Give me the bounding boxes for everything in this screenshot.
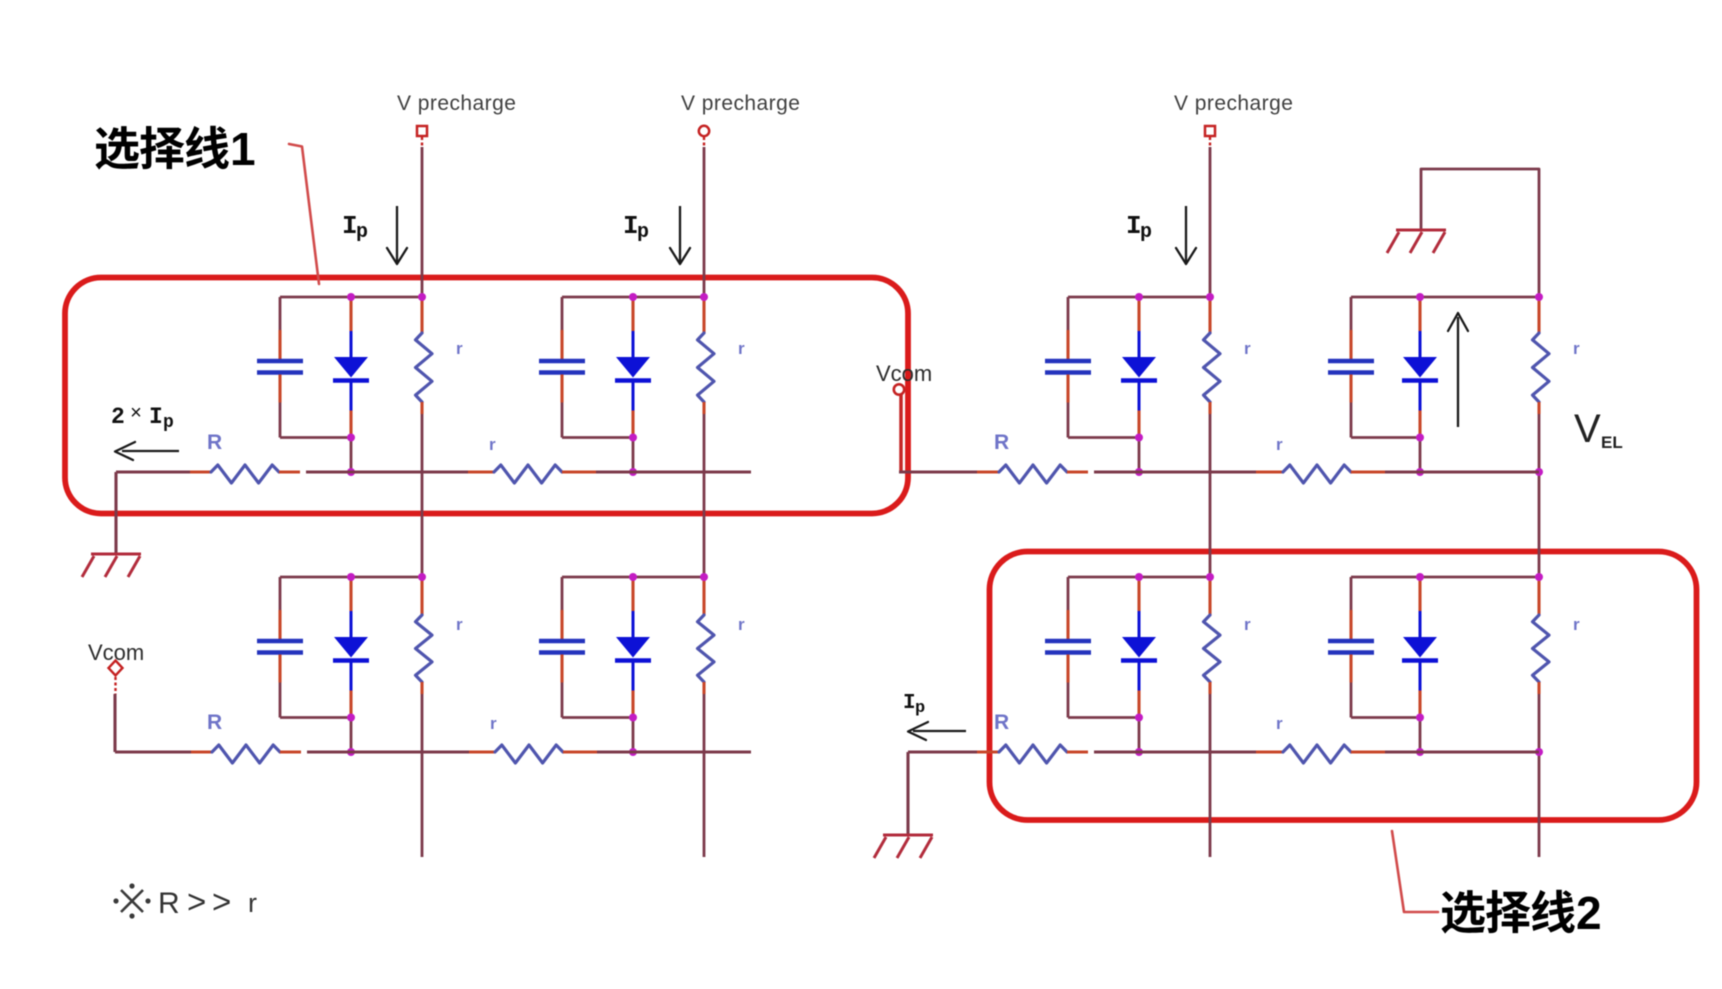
wire lead column 2 row2: [702, 580, 705, 615]
wire row 2 right segment c: [1385, 750, 1539, 753]
svg-text:I: I: [149, 404, 163, 430]
svg-text:r: r: [1276, 435, 1283, 454]
junction dots row2 col1: [347, 573, 426, 756]
svg-text:r: r: [456, 615, 463, 634]
svg-text:V: V: [1574, 407, 1601, 451]
svg-text:p: p: [915, 699, 925, 718]
label Ip column 3: [1126, 211, 1152, 244]
wire cell bottom row1 col4: [1351, 436, 1420, 439]
wire row 1 left segment a: [116, 470, 190, 473]
label V_EL: [1574, 407, 1623, 452]
label r row 2 right: [1276, 714, 1283, 733]
wire Vcom right down: [899, 394, 903, 472]
wire column 2 below row 2: [702, 682, 705, 857]
diode LED row1 col1: [333, 297, 369, 472]
resistor r row 1 right: [1256, 465, 1385, 483]
terminal V precharge 2: [699, 126, 709, 147]
wire top hook to ground (V_EL column): [1421, 169, 1539, 299]
junction dots row2 col3: [1135, 573, 1214, 756]
svg-text:R: R: [994, 431, 1009, 454]
resistor r column 4 row 1: [1533, 333, 1550, 402]
wire column 2 between rows: [702, 402, 705, 580]
resistor r row 2 left: [469, 745, 597, 763]
wire cell top row2 col3: [1068, 576, 1210, 579]
svg-text:p: p: [163, 413, 174, 433]
label r row 1 right: [1276, 435, 1283, 454]
label select-line 1 (Chinese): [95, 123, 255, 175]
resistor R row 1 right: [977, 465, 1088, 483]
wire row 1 right segment c: [1385, 470, 1539, 473]
wire column 3 from terminal to first cell: [1209, 147, 1212, 300]
wire lead column 1 row2: [420, 580, 423, 615]
wire cell bottom row1 col3: [1068, 436, 1139, 439]
label R row 1 right: [994, 431, 1009, 454]
svg-text:r: r: [1573, 615, 1580, 634]
arrow Ip down column 2: [670, 206, 690, 264]
capacitor C row1 col2: [539, 297, 585, 438]
wire lead column 3 row1: [1208, 299, 1211, 333]
wire cell top row1 col3: [1068, 296, 1210, 299]
wire lead column 4 row2: [1537, 580, 1540, 615]
label Ip column 1: [342, 211, 368, 244]
label R row 2 right: [994, 711, 1009, 734]
note R much greater than r: [113, 883, 257, 920]
label Ip column 2: [623, 211, 649, 244]
svg-text:r: r: [489, 435, 496, 454]
annotation rounded box select-line 1: [65, 278, 908, 514]
terminal V precharge 3: [1205, 126, 1215, 147]
label Vcom left: [88, 640, 144, 665]
svg-text:R: R: [158, 887, 180, 920]
wire cell bottom row1 col2: [562, 436, 633, 439]
diode LED row2 col4: [1402, 577, 1438, 752]
wire row 2 left segment a: [115, 750, 191, 753]
label r row 2 left: [490, 714, 497, 733]
resistor r column 1 row 1: [416, 333, 433, 402]
capacitor C row1 col3: [1045, 297, 1091, 438]
resistor R row 2 left: [191, 745, 301, 763]
svg-text:V precharge: V precharge: [1174, 92, 1293, 115]
junction dots V_EL column: [1535, 468, 1543, 756]
arrow current up (V_EL cell): [1448, 313, 1468, 427]
svg-text:>: >: [212, 883, 231, 920]
arrow Ip down column 3: [1176, 206, 1196, 264]
label r column 1 row 1: [456, 339, 463, 358]
wire cell bottom row2 col1: [280, 716, 351, 719]
wire cell bottom row2 col2: [562, 716, 633, 719]
wire row 1 right segment a: [899, 470, 977, 473]
diode LED row2 col1: [333, 577, 369, 752]
wire lead column 2 row1: [702, 299, 705, 333]
junction dots row2 col4: [1416, 573, 1543, 756]
svg-text:R: R: [207, 431, 222, 454]
label 2xIp: [111, 403, 174, 433]
svg-text:r: r: [1244, 339, 1251, 358]
wire cell bottom row2 col4: [1351, 716, 1420, 719]
resistor R row 1 left: [190, 465, 300, 483]
label r row 1 left: [489, 435, 496, 454]
wire lead column 4 row1: [1537, 299, 1540, 333]
ground row 1 left: [82, 554, 141, 577]
wire cell top row2 col1: [280, 576, 422, 579]
terminal Vcom left: [109, 661, 123, 695]
wire row 2 right end down: [906, 752, 909, 835]
svg-text:p: p: [637, 221, 649, 244]
label R row 1 left: [207, 431, 222, 454]
svg-text:EL: EL: [1601, 433, 1623, 452]
svg-text:r: r: [1244, 615, 1251, 634]
svg-text:R: R: [994, 711, 1009, 734]
capacitor C row2 col4: [1328, 577, 1374, 718]
wire column 1 below row 2: [420, 682, 423, 857]
wire row 2 right segment b: [1094, 750, 1256, 753]
wire row 1 left end down: [114, 472, 117, 554]
wire cell top row1 col1: [280, 296, 422, 299]
wire row 2 left segment c: [597, 750, 751, 753]
wire column 1 from terminal to first cell: [421, 147, 424, 300]
junction dots row1 col1: [347, 293, 426, 476]
svg-text:>: >: [187, 883, 206, 920]
svg-text:R: R: [207, 711, 222, 734]
label r column 4 row 1: [1573, 339, 1580, 358]
resistor r column 4 row 2: [1533, 615, 1550, 682]
label R row 2 left: [207, 711, 222, 734]
resistor R row 2 right: [977, 745, 1088, 763]
svg-text:2: 2: [111, 404, 125, 430]
resistor r column 1 row 2: [416, 615, 433, 682]
diode LED row1 col2: [615, 297, 651, 472]
wire column 4 between rows: [1537, 402, 1540, 580]
wire cell top row1 col4: [1351, 296, 1539, 299]
arrow 2xIp left: [115, 442, 179, 460]
callout line for select-line 1: [289, 144, 319, 284]
label r column 1 row 2: [456, 615, 463, 634]
wire row 2 left segment b: [307, 750, 469, 753]
svg-text:r: r: [1573, 339, 1580, 358]
wire column 2 from terminal to first cell: [703, 147, 706, 300]
wire cell bottom row2 col3: [1068, 716, 1139, 719]
wire row 2 right segment a: [908, 750, 977, 753]
junction dots row1 col2: [629, 293, 708, 476]
annotation rounded box select-line 2: [990, 552, 1697, 821]
label Ip row 2 right: [903, 692, 925, 718]
resistor r column 3 row 2: [1204, 615, 1221, 682]
arrow Ip down column 1: [387, 206, 407, 264]
wire row 1 left segment c: [596, 470, 751, 473]
wire row 1 right segment b: [1094, 470, 1256, 473]
svg-text:r: r: [490, 714, 497, 733]
svg-text:Vcom: Vcom: [876, 361, 932, 386]
label r column 3 row 1: [1244, 339, 1251, 358]
svg-text:p: p: [356, 221, 368, 244]
junction dots row1 col3: [1135, 293, 1214, 476]
diode LED row1 col4: [1402, 297, 1438, 472]
svg-text:I: I: [903, 692, 916, 715]
svg-text:r: r: [456, 339, 463, 358]
resistor r column 3 row 1: [1204, 333, 1221, 402]
label r column 4 row 2: [1573, 615, 1580, 634]
diode LED row1 col3: [1121, 297, 1157, 472]
wire column 3 below row 2: [1208, 682, 1211, 857]
label r column 3 row 2: [1244, 615, 1251, 634]
terminal V precharge 1: [417, 126, 427, 147]
svg-text:×: ×: [130, 403, 142, 426]
wire lead column 3 row2: [1208, 580, 1211, 615]
junction dots row2 col2: [629, 573, 708, 756]
wire lead column 1 row1: [420, 299, 423, 333]
svg-text:V precharge: V precharge: [397, 92, 516, 115]
ground top right: [1387, 230, 1446, 253]
label select-line 2 (Chinese): [1441, 887, 1601, 939]
svg-text:r: r: [738, 339, 745, 358]
diode LED row2 col3: [1121, 577, 1157, 752]
wire column 1 between rows: [420, 402, 423, 580]
svg-text:1: 1: [230, 123, 256, 175]
wire column 4 below row 2: [1537, 682, 1540, 857]
svg-text:r: r: [248, 888, 257, 918]
ground row 2 right: [874, 835, 933, 858]
wire Vcom left down: [113, 694, 116, 752]
label Vcom right: [876, 361, 932, 386]
svg-text:r: r: [1276, 714, 1283, 733]
diode LED row2 col2: [615, 577, 651, 752]
svg-text:r: r: [738, 615, 745, 634]
svg-text:2: 2: [1576, 887, 1602, 939]
resistor r column 2 row 2: [698, 615, 715, 682]
resistor r column 2 row 1: [698, 333, 715, 402]
wire column 3 between rows: [1208, 402, 1211, 580]
svg-text:V precharge: V precharge: [681, 92, 800, 115]
label r column 2 row 1: [738, 339, 745, 358]
terminal Vcom right: [894, 384, 904, 394]
wire cell top row1 col2: [562, 296, 704, 299]
arrow Ip left row 2 right: [908, 722, 966, 740]
wire cell top row2 col2: [562, 576, 704, 579]
label V precharge 2: [681, 92, 800, 115]
wire cell top row2 col4: [1351, 576, 1539, 579]
wire cell bottom row1 col1: [280, 436, 351, 439]
svg-text:p: p: [1140, 221, 1152, 244]
callout line for select-line 2: [1392, 831, 1438, 912]
resistor r row 2 right: [1256, 745, 1385, 763]
junction dots row1 col4: [1416, 293, 1543, 476]
label V precharge 3: [1174, 92, 1293, 115]
wire row 1 left segment b: [306, 470, 468, 473]
capacitor C row1 col4: [1328, 297, 1374, 438]
resistor r row 1 left: [468, 465, 596, 483]
capacitor C row2 col1: [257, 577, 303, 718]
capacitor C row1 col1: [257, 297, 303, 438]
label V precharge 1: [397, 92, 516, 115]
capacitor C row2 col2: [539, 577, 585, 718]
capacitor C row2 col3: [1045, 577, 1091, 718]
label r column 2 row 2: [738, 615, 745, 634]
